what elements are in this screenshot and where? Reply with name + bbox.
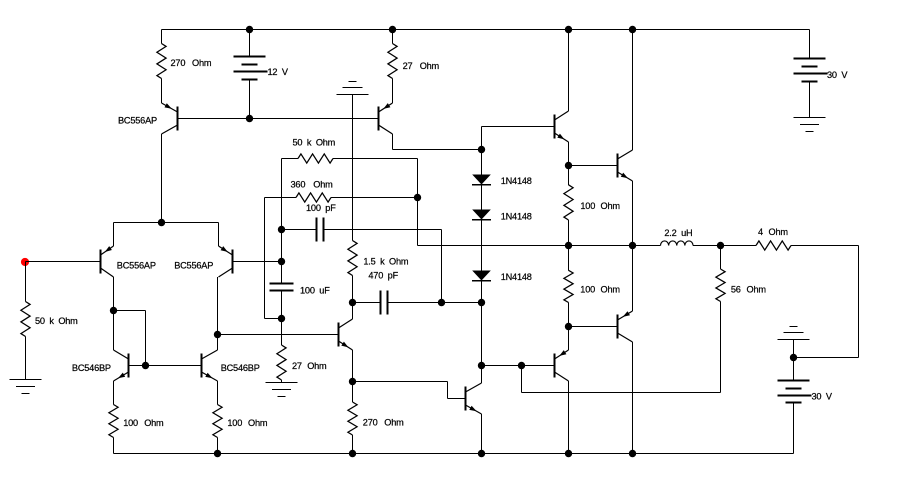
svg-text:12 V: 12 V <box>268 67 289 77</box>
svg-text:270: 270 <box>363 417 378 427</box>
junction top rail / 12V battery <box>246 26 253 33</box>
junction diff tail <box>158 219 165 226</box>
wire diode chain to lower base node <box>481 303 483 366</box>
wire bias emitter <box>481 414 483 454</box>
node input (red) <box>21 258 29 266</box>
battery B3 30 V <box>778 358 833 454</box>
svg-text:30 V: 30 V <box>812 392 833 402</box>
resistor R13 56 Ohm <box>716 246 766 393</box>
wire diff emitters bus <box>114 223 219 247</box>
resistor R8 100 Ohm mirror left <box>109 381 164 454</box>
junction mirror input node <box>110 307 117 314</box>
junction 470pF right <box>438 299 445 306</box>
battery B2 30 V <box>794 30 849 118</box>
ground below B2 <box>794 118 826 132</box>
wire ground stem to 1.5k <box>352 95 354 241</box>
wire Q6 collector <box>568 381 570 454</box>
transistor Q8 BC556AP diff left <box>101 246 156 277</box>
junction top rail / Q5 collector <box>629 26 636 33</box>
transistor Q3 upper driver <box>555 111 569 142</box>
svg-text:270: 270 <box>171 58 186 68</box>
wire mirror left collector <box>113 311 115 351</box>
junction Q4 base node <box>565 323 572 330</box>
wire diff right base <box>233 261 282 263</box>
junction lower base node <box>478 362 485 369</box>
transistor Q12 VAS <box>339 319 353 350</box>
svg-text:100 pF: 100 pF <box>306 203 336 213</box>
wire diff right collector <box>217 277 219 335</box>
svg-text:30 V: 30 V <box>827 70 848 80</box>
wire Q6 base <box>482 365 555 367</box>
svg-text:27: 27 <box>403 61 413 71</box>
resistor R5 360 Ohm <box>265 179 418 202</box>
resistor R4 50 k Ohm feedback <box>282 138 418 164</box>
svg-text:100: 100 <box>580 285 595 295</box>
wire Q1 collector <box>161 134 163 223</box>
svg-text:100: 100 <box>123 418 138 428</box>
wire bias transistor base path <box>353 382 466 399</box>
wire 50k right drop <box>417 159 419 198</box>
resistor R3 1.5 k Ohm <box>348 241 409 303</box>
wire 50k left drop <box>281 159 283 230</box>
svg-text:360: 360 <box>291 179 306 189</box>
resistor R1 270 Ohm <box>157 30 212 104</box>
transistor Q5 output top <box>618 150 633 181</box>
svg-text:1N4148: 1N4148 <box>501 272 532 282</box>
svg-text:BC546BP: BC546BP <box>221 363 260 373</box>
wire Q4 collector <box>632 342 634 454</box>
junction bottom rail at Q6 collector <box>565 450 572 457</box>
wire base tap to 56 Ohm <box>522 366 721 393</box>
wire Q6 emitter <box>568 327 570 351</box>
transistor Q10 BC546BP mirror left <box>72 350 129 381</box>
svg-text:50 k Ohm: 50 k Ohm <box>293 138 336 148</box>
svg-text:Ohm: Ohm <box>248 418 268 428</box>
wire D3 to bottom node <box>481 281 483 303</box>
transistor Q2 <box>379 103 393 134</box>
svg-text:100: 100 <box>227 418 242 428</box>
junction top rail / 27 Ohm <box>389 26 396 33</box>
wire diff left collector <box>113 277 115 311</box>
ground (inverted) top middle <box>337 82 369 95</box>
junction Q3 emitter node <box>565 162 572 169</box>
junction bottom rail at Q4 collector <box>629 450 636 457</box>
junction Q6 base tap <box>518 362 525 369</box>
wire 100pF right drop <box>441 230 443 303</box>
junction 100pF left <box>278 226 285 233</box>
transistor Q1 BC556AP <box>118 103 178 134</box>
resistor R10 270 Ohm VAS <box>348 382 404 454</box>
svg-text:1.5 k Ohm: 1.5 k Ohm <box>363 257 409 267</box>
wire Q4 base <box>569 326 618 328</box>
wire Q3 collector <box>568 30 570 112</box>
junction bottom rail at 270 Ohm <box>349 450 356 457</box>
junction diode chain bottom <box>478 299 485 306</box>
junction top rail / Q3 collector <box>565 26 572 33</box>
transistor Q6 output bottom <box>555 350 569 381</box>
svg-text:Ohm: Ohm <box>747 284 767 294</box>
wire Q3 base <box>482 127 555 150</box>
svg-text:Ohm: Ohm <box>192 58 212 68</box>
svg-text:Ohm: Ohm <box>384 417 404 427</box>
junction battery B3 plus node <box>790 354 797 361</box>
junction 12V battery on bias rail <box>246 115 253 122</box>
wire Q5 collector <box>632 30 634 151</box>
resistor R2 27 Ohm <box>388 30 440 104</box>
capacitor C3 470 pF <box>353 271 442 315</box>
junction output node <box>717 242 724 249</box>
diode D3 1N4148 <box>472 271 532 283</box>
junction mirror base <box>142 362 149 369</box>
wire Q2 collector to diode chain <box>393 134 482 150</box>
svg-text:Ohm: Ohm <box>144 418 164 428</box>
wire Q5 base <box>569 165 618 167</box>
wire VAS emitter <box>352 350 354 382</box>
svg-text:BC556AP: BC556AP <box>174 260 213 270</box>
resistor R7 50 k Ohm input <box>21 262 78 380</box>
junction VAS base node <box>214 331 221 338</box>
resistor R9 100 Ohm mirror right <box>213 381 268 454</box>
svg-text:Ohm: Ohm <box>420 61 440 71</box>
ground (inverted) at B3 <box>778 327 810 358</box>
svg-text:100 uF: 100 uF <box>300 285 330 295</box>
wire Q4 emitter <box>632 246 634 312</box>
wire mirror base link <box>114 311 146 366</box>
svg-text:Ohm: Ohm <box>313 179 333 189</box>
wire mirror bases <box>129 365 202 367</box>
wire 470pF node to diode chain <box>442 302 482 304</box>
wire bias collector <box>481 366 483 384</box>
svg-text:Ohm: Ohm <box>307 361 327 371</box>
svg-text:470 pF: 470 pF <box>368 271 398 281</box>
battery B1 12 V <box>234 30 289 119</box>
wire Q3 emitter <box>568 142 570 166</box>
resistor R11 100 Ohm upper <box>564 166 620 246</box>
ground below input 50k <box>10 380 42 394</box>
junction VAS emitter node <box>349 378 356 385</box>
diode D2 1N4148 <box>472 210 532 222</box>
svg-text:4: 4 <box>758 227 763 237</box>
junction diode chain top <box>478 146 485 153</box>
svg-text:BC546BP: BC546BP <box>72 363 111 373</box>
capacitor C2 100 uF <box>270 277 331 319</box>
svg-text:27: 27 <box>292 361 302 371</box>
junction diff right base node <box>278 258 285 265</box>
svg-text:Ohm: Ohm <box>601 285 621 295</box>
wire diff base column <box>281 230 283 277</box>
svg-text:2.2 uH: 2.2 uH <box>664 228 692 238</box>
inductor L1 2.2 uH <box>661 228 721 246</box>
resistor R12 100 Ohm lower <box>564 246 620 327</box>
junction feedback node <box>414 194 421 201</box>
capacitor C1 100 pF <box>282 203 442 242</box>
svg-text:Ohm: Ohm <box>601 201 621 211</box>
svg-text:56: 56 <box>731 284 741 294</box>
resistor R14 4 Ohm load <box>721 227 859 250</box>
wire output rail <box>418 245 661 247</box>
transistor Q11 BC546BP mirror right <box>202 350 260 381</box>
svg-text:Ohm: Ohm <box>769 227 789 237</box>
svg-text:50 k Ohm: 50 k Ohm <box>35 316 78 326</box>
wire VAS collector <box>352 303 354 320</box>
resistor R6 27 Ohm mid <box>277 319 327 383</box>
junction output rail / 100 Ohm <box>565 242 572 249</box>
transistor Q13 bias <box>466 383 482 414</box>
wire bias rail <box>178 118 379 120</box>
ground below 27 Ohm <box>266 383 298 397</box>
svg-text:100: 100 <box>580 201 595 211</box>
transistor Q9 BC556AP diff right <box>174 246 232 277</box>
transistor Q4 lower driver <box>618 311 633 342</box>
wire bottom rail <box>114 453 794 455</box>
svg-text:BC556AP: BC556AP <box>117 260 156 270</box>
wire +30V top rail <box>162 29 810 31</box>
wire mirror right collector <box>217 335 219 351</box>
svg-text:1N4148: 1N4148 <box>501 176 532 186</box>
wire VAS base <box>218 334 339 336</box>
wire D2-D3 <box>481 220 483 271</box>
svg-text:BC556AP: BC556AP <box>118 116 157 126</box>
svg-text:1N4148: 1N4148 <box>501 211 532 221</box>
wire feedback node to output rail <box>417 198 419 246</box>
wire diode chain top lead <box>481 150 483 175</box>
junction VAS collector node <box>349 299 356 306</box>
wire D1-D2 <box>481 185 483 210</box>
wire 360 left leg <box>265 198 282 319</box>
wire Q5 emitter <box>632 181 634 246</box>
wire load return <box>794 246 859 358</box>
junction bottom rail at mirror right <box>214 450 221 457</box>
diode D1 1N4148 <box>472 175 532 186</box>
junction output rail / output devices <box>629 242 636 249</box>
junction 100uF bottom node <box>278 315 285 322</box>
wire input to diff left base <box>26 261 101 263</box>
junction bottom rail at bias emitter <box>478 450 485 457</box>
